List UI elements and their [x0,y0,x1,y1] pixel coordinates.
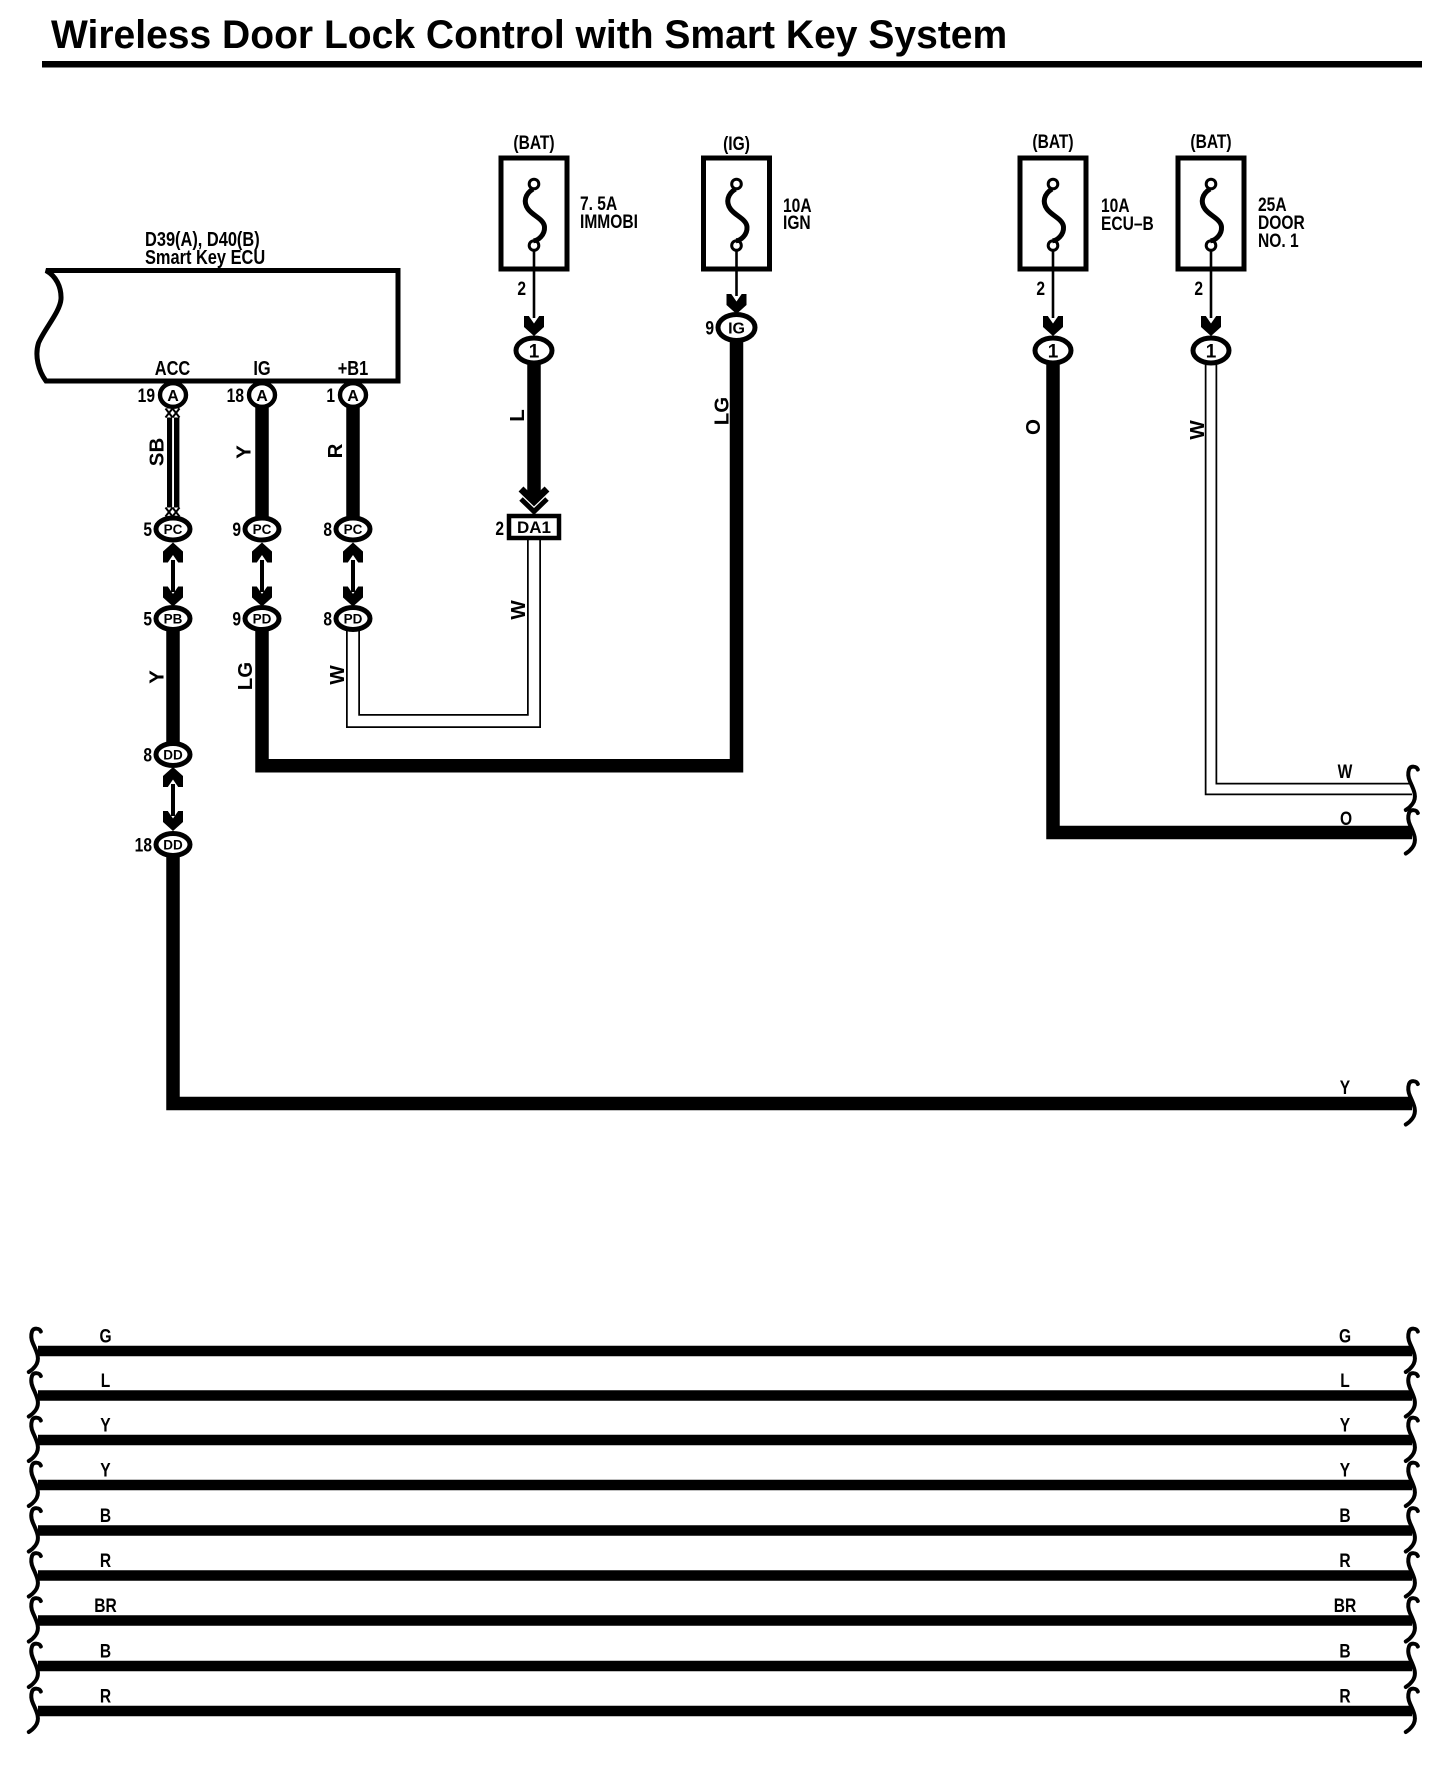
svg-text:L: L [1340,1370,1350,1392]
svg-text:O: O [1022,419,1045,435]
svg-text:W: W [1186,420,1209,440]
svg-text:8: 8 [323,608,332,630]
svg-text:R: R [100,1550,112,1572]
svg-text:Y: Y [100,1414,111,1436]
svg-text:ECU–B: ECU–B [1101,213,1154,235]
svg-text:Y: Y [1340,1414,1351,1436]
svg-text:W: W [326,665,349,685]
svg-text:Wireless Door Lock Control wit: Wireless Door Lock Control with Smart Ke… [51,13,1007,58]
svg-text:PC: PC [344,522,363,537]
svg-text:B: B [100,1640,111,1662]
svg-text:(IG): (IG) [723,133,750,155]
svg-text:PB: PB [164,611,183,626]
svg-text:1: 1 [1048,341,1059,362]
svg-text:L: L [506,409,529,422]
svg-text:2: 2 [1036,278,1045,300]
svg-text:R: R [1339,1685,1351,1707]
svg-text:R: R [1339,1550,1351,1572]
svg-text:9: 9 [232,519,241,541]
svg-text:Y: Y [1340,1459,1351,1481]
svg-text:IG: IG [728,320,745,337]
svg-text:2: 2 [495,518,504,540]
svg-text:B: B [1339,1640,1350,1662]
svg-text:G: G [1339,1325,1351,1347]
svg-text:A: A [256,388,268,405]
svg-text:(BAT): (BAT) [513,132,554,154]
svg-text:Smart Key ECU: Smart Key ECU [145,245,265,268]
svg-text:W: W [507,600,530,620]
svg-text:A: A [347,388,359,405]
svg-text:IGN: IGN [783,212,811,234]
svg-text:5: 5 [143,608,152,630]
svg-text:BR: BR [94,1595,117,1617]
svg-text:Y: Y [233,445,256,459]
svg-text:ACC: ACC [155,356,190,379]
svg-text:8: 8 [143,744,152,766]
svg-text:9: 9 [705,317,714,339]
svg-text:BR: BR [1334,1595,1357,1617]
svg-text:A: A [167,388,179,405]
svg-text:+B1: +B1 [338,356,369,379]
svg-text:2: 2 [1194,278,1203,300]
svg-text:PD: PD [253,611,272,626]
svg-text:B: B [100,1505,111,1527]
svg-text:R: R [100,1685,112,1707]
svg-text:8: 8 [323,519,332,541]
svg-text:DD: DD [163,747,183,762]
svg-text:DA1: DA1 [517,518,551,537]
svg-text:IG: IG [253,356,270,379]
svg-text:B: B [1339,1505,1350,1527]
svg-text:PC: PC [164,522,183,537]
svg-text:IMMOBI: IMMOBI [580,211,638,233]
svg-text:G: G [99,1325,111,1347]
svg-text:(BAT): (BAT) [1190,131,1231,153]
svg-text:1: 1 [326,385,335,407]
svg-text:PD: PD [344,611,363,626]
svg-text:L: L [101,1370,111,1392]
svg-text:SB: SB [146,438,169,466]
svg-text:9: 9 [232,608,241,630]
svg-text:5: 5 [143,519,152,541]
svg-text:O: O [1340,808,1352,830]
svg-text:Y: Y [146,670,169,684]
svg-text:(BAT): (BAT) [1032,131,1073,153]
svg-text:19: 19 [138,385,156,407]
svg-text:Y: Y [1340,1077,1351,1099]
svg-text:NO. 1: NO. 1 [1258,230,1299,252]
svg-text:1: 1 [529,341,540,362]
svg-text:18: 18 [135,834,153,856]
svg-text:R: R [324,443,347,458]
svg-text:W: W [1338,761,1353,783]
svg-text:2: 2 [517,278,526,300]
svg-text:1: 1 [1206,341,1217,362]
svg-text:PC: PC [253,522,272,537]
svg-text:DD: DD [163,837,183,852]
svg-text:LG: LG [234,662,257,690]
svg-text:LG: LG [711,397,734,425]
svg-text:Y: Y [100,1459,111,1481]
svg-text:18: 18 [227,385,245,407]
